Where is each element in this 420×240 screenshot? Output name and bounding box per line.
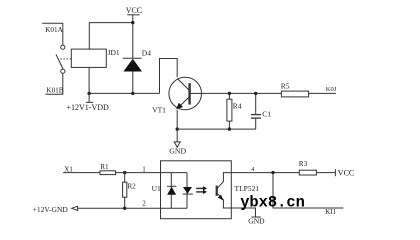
wire emitter bottom line — [177, 128, 256, 130]
svg-text:R5: R5 — [281, 82, 290, 91]
junction C1 top — [254, 92, 257, 95]
svg-text:VCC: VCC — [338, 169, 354, 178]
svg-text:U1: U1 — [152, 184, 161, 193]
svg-text:+12V1-VDD: +12V1-VDD — [67, 103, 110, 112]
relay contact switch — [56, 45, 65, 73]
svg-text:ybx8.cn: ybx8.cn — [240, 194, 305, 212]
capacitor C1 — [251, 93, 271, 129]
svg-text:K01B: K01B — [46, 86, 63, 94]
svg-text:2: 2 — [142, 199, 146, 207]
junction R2 bottom — [123, 207, 126, 210]
svg-text:GND: GND — [248, 217, 265, 226]
svg-text:KI1: KI1 — [325, 208, 336, 216]
junction R4 bottom — [228, 127, 231, 130]
svg-text:GND: GND — [169, 147, 186, 156]
svg-text:1: 1 — [142, 165, 146, 173]
wire coil bottom to rail — [88, 67, 90, 93]
diode D4 — [123, 48, 151, 93]
node base line — [202, 92, 281, 94]
LED D-left (pointing up) — [167, 186, 177, 195]
svg-text:VT1: VT1 — [152, 106, 166, 115]
node X1 — [63, 165, 100, 173]
LED left branch — [170, 173, 172, 209]
svg-text:R1: R1 — [100, 163, 109, 171]
junction R1 / R2 — [123, 171, 126, 174]
wire coil top to VCC — [89, 23, 133, 49]
light arrows — [196, 186, 207, 194]
mechanical link dashes — [61, 58, 72, 60]
svg-text:VCC: VCC — [126, 6, 142, 15]
junction coil bottom — [87, 92, 90, 95]
node K01B — [45, 73, 63, 94]
svg-text:D4: D4 — [142, 48, 151, 57]
transistor VT1 — [152, 77, 202, 114]
wire rail to collector — [160, 59, 178, 94]
svg-text:R4: R4 — [233, 102, 242, 111]
power +12V1-VDD — [67, 93, 110, 111]
svg-text:TLP521: TLP521 — [235, 184, 260, 193]
svg-text:K0J: K0J — [326, 86, 337, 93]
junction pin4 node — [271, 171, 274, 174]
svg-text:K01A: K01A — [45, 26, 63, 34]
wire to KI1 — [273, 173, 343, 208]
junction diode anode — [131, 92, 134, 95]
power VCC right terminal — [335, 169, 354, 178]
ground GND — [169, 129, 186, 155]
junction R4 top — [228, 92, 231, 95]
LED top rail — [161, 172, 188, 174]
phototransistor — [217, 173, 260, 208]
opto-coupler U1 box — [152, 161, 232, 219]
resistor R4 — [227, 93, 242, 129]
resistor R1 — [100, 163, 161, 174]
wire pin4 to R3 — [231, 172, 299, 174]
LED bottom rail — [161, 207, 188, 209]
resistor R5 — [281, 82, 336, 97]
resistor R2 — [123, 173, 137, 209]
svg-text:R3: R3 — [299, 160, 308, 168]
node +12V-GND — [33, 205, 161, 214]
svg-text:R2: R2 — [127, 183, 136, 191]
junction emitter node — [176, 127, 179, 130]
power VCC — [126, 6, 142, 58]
rail +12V1-VDD — [89, 92, 159, 94]
node K01A — [42, 23, 63, 45]
svg-text:C1: C1 — [262, 110, 271, 119]
ground GND2 — [248, 217, 265, 226]
resistor R3 — [299, 160, 336, 175]
relay coil JD1 — [71, 48, 120, 67]
LED D-right (pointing down) — [183, 187, 193, 194]
wire emitter down — [176, 110, 178, 129]
svg-text:JD1: JD1 — [108, 48, 120, 57]
junction VCC node — [131, 21, 134, 24]
wire emitter to ground — [231, 208, 255, 217]
LED right branch — [186, 173, 188, 209]
svg-text:+12V-GND: +12V-GND — [33, 205, 69, 214]
